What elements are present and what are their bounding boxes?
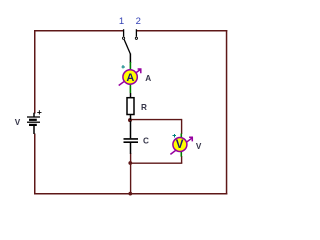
wire middle branch: lower junction to bottom rail bbox=[130, 163, 132, 194]
switch blade bbox=[124, 40, 130, 54]
wire bottom rail bbox=[34, 193, 227, 195]
battery V black leads bbox=[33, 113, 35, 134]
ammeter green leads bbox=[129, 62, 131, 93]
svg-text:C: C bbox=[143, 136, 149, 145]
node junction on bottom rail bbox=[128, 192, 132, 196]
svg-text:2: 2 bbox=[136, 16, 141, 27]
voltmeter polarity plus bbox=[173, 134, 177, 138]
node junction below resistor bbox=[128, 118, 132, 122]
svg-text:A: A bbox=[126, 72, 134, 84]
resistor R leads bbox=[130, 93, 132, 120]
wire voltmeter loop top bbox=[130, 119, 182, 121]
voltmeter arrow bbox=[170, 137, 193, 154]
svg-text:A: A bbox=[145, 74, 151, 83]
switch pivot terminal circle 1 bbox=[123, 37, 125, 39]
svg-text:V: V bbox=[176, 138, 184, 151]
wire top rail right segment bbox=[136, 30, 227, 32]
capacitor C bottom lead bbox=[130, 143, 132, 154]
ammeter polarity plus bbox=[121, 65, 125, 69]
wire voltmeter loop right lower bbox=[181, 156, 183, 163]
switch open terminal circle 2 bbox=[135, 37, 137, 39]
ammeter U1 body bbox=[123, 70, 137, 84]
switch blade lower lead bbox=[129, 54, 131, 64]
battery V plates bbox=[27, 117, 40, 125]
capacitor C plates bbox=[124, 139, 139, 142]
wire middle branch: capacitor bottom lead to lower junction bbox=[130, 153, 132, 163]
voltmeter U2 body bbox=[173, 138, 187, 152]
svg-text:1: 1 bbox=[119, 16, 124, 27]
node junction below capacitor bbox=[128, 161, 132, 165]
wire voltmeter loop right upper bbox=[181, 119, 183, 134]
wire right rail bbox=[226, 30, 228, 195]
wire voltmeter loop bottom bbox=[130, 162, 182, 164]
wire left rail bbox=[34, 30, 36, 195]
switch SW leads bbox=[124, 29, 137, 37]
svg-text:R: R bbox=[141, 103, 147, 112]
svg-text:V: V bbox=[15, 118, 21, 127]
wire top rail left segment bbox=[34, 30, 124, 32]
resistor R body bbox=[127, 98, 134, 115]
capacitor C top lead bbox=[130, 121, 132, 138]
ammeter arrow bbox=[119, 69, 142, 86]
voltmeter green leads bbox=[180, 134, 182, 157]
svg-text:V: V bbox=[196, 142, 202, 151]
svg-text:+: + bbox=[37, 107, 42, 117]
